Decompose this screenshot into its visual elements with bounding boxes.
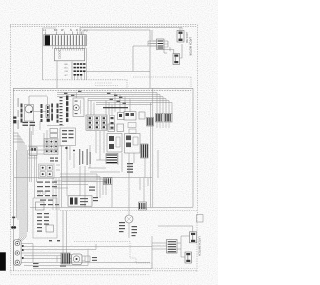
- svg-text:LOCK SW: LOCK SW: [185, 32, 188, 44]
- svg-text:LATCH MOTOR: LATCH MOTOR: [188, 37, 192, 56]
- svg-text:OR: OR: [65, 71, 69, 73]
- svg-text:Y: Y: [80, 28, 82, 32]
- svg-text:R: R: [76, 28, 78, 32]
- svg-text:CLOCK: CLOCK: [58, 50, 62, 59]
- svg-text:BK: BK: [54, 28, 58, 32]
- svg-text:GY: GY: [65, 75, 69, 77]
- svg-text:PU: PU: [84, 29, 88, 33]
- svg-text:N: N: [70, 28, 72, 32]
- svg-text:BR: BR: [65, 64, 68, 66]
- svg-text:BU: BU: [65, 68, 68, 70]
- svg-text:LATCH SWITCH: LATCH SWITCH: [198, 237, 202, 256]
